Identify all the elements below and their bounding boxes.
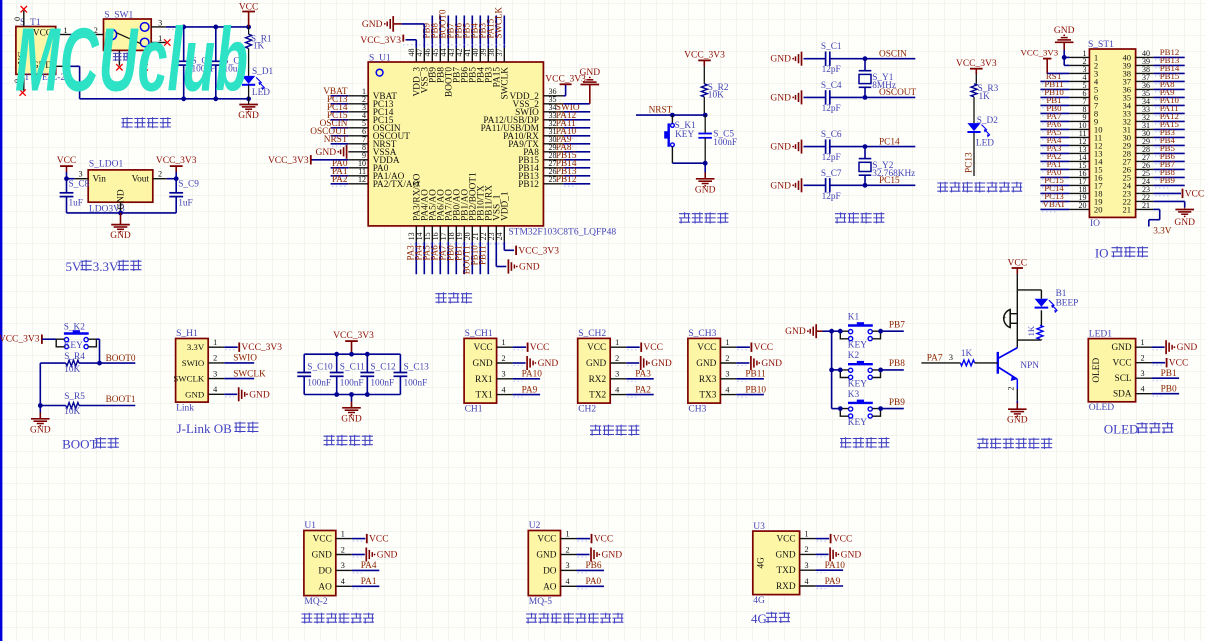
svg-text:21: 21	[1123, 204, 1132, 214]
svg-text:PC14: PC14	[879, 137, 900, 147]
svg-text:SDA: SDA	[1113, 390, 1132, 400]
svg-text:S_LDO1: S_LDO1	[89, 159, 124, 169]
svg-text:32.768KHz: 32.768KHz	[872, 169, 915, 179]
svg-text:S_C4: S_C4	[821, 81, 842, 91]
svg-text:RXD: RXD	[776, 582, 796, 592]
svg-text:3: 3	[805, 561, 809, 570]
svg-text:GND: GND	[580, 68, 601, 78]
svg-text:VCC_3V3: VCC_3V3	[333, 331, 374, 341]
svg-text:LED: LED	[976, 139, 994, 149]
svg-text:PB7: PB7	[889, 320, 905, 330]
svg-text:VCC_3V3: VCC_3V3	[1021, 47, 1059, 57]
svg-text:VCC: VCC	[1008, 258, 1028, 268]
svg-text:SWIO: SWIO	[233, 354, 257, 364]
svg-text:3: 3	[949, 353, 953, 362]
svg-text:PB9: PB9	[1160, 175, 1176, 185]
svg-text:S_CH1: S_CH1	[465, 329, 493, 339]
svg-text:LED: LED	[252, 88, 270, 98]
svg-text:TX3: TX3	[699, 391, 716, 401]
svg-text:K3: K3	[848, 390, 860, 400]
svg-text:GND: GND	[1174, 218, 1195, 228]
svg-text:VCC: VCC	[833, 535, 853, 545]
svg-text:2: 2	[725, 354, 729, 363]
svg-text:LED1: LED1	[1089, 329, 1112, 339]
svg-text:GND: GND	[602, 551, 623, 561]
svg-text:S_C11: S_C11	[340, 363, 365, 373]
svg-text:1K: 1K	[979, 92, 991, 102]
svg-text:GND: GND	[785, 327, 806, 337]
svg-text:U3: U3	[753, 522, 765, 532]
svg-text:2: 2	[615, 354, 619, 363]
svg-text:GND: GND	[841, 550, 862, 560]
svg-text:VCC: VCC	[57, 156, 77, 166]
svg-text:SWIO: SWIO	[182, 358, 204, 368]
svg-text:12pF: 12pF	[822, 104, 841, 114]
svg-text:TX2: TX2	[589, 391, 606, 401]
svg-text:GND: GND	[696, 359, 716, 369]
svg-text:SWCLK: SWCLK	[173, 374, 204, 384]
svg-text:3: 3	[565, 561, 569, 570]
svg-text:GND: GND	[770, 181, 791, 191]
svg-text:5V: 5V	[65, 259, 82, 274]
svg-text:PA9: PA9	[522, 385, 538, 395]
svg-text:Vin: Vin	[93, 175, 107, 185]
svg-text:10K: 10K	[64, 407, 80, 417]
svg-text:GND: GND	[185, 389, 204, 399]
svg-text:2: 2	[1007, 387, 1016, 391]
svg-text:S_ST1: S_ST1	[1088, 40, 1114, 50]
svg-text:VCC_3V3: VCC_3V3	[0, 335, 40, 345]
svg-text:VCC: VCC	[594, 535, 614, 545]
svg-text:GND: GND	[341, 414, 362, 424]
svg-text:VCC: VCC	[1169, 359, 1189, 369]
svg-text:3: 3	[78, 170, 82, 179]
svg-text:KEY: KEY	[675, 130, 694, 140]
svg-text:TXD: TXD	[776, 566, 795, 576]
svg-text:J-Link OB: J-Link OB	[177, 421, 233, 436]
svg-text:PC13: PC13	[964, 152, 974, 173]
svg-text:PA1: PA1	[361, 577, 377, 587]
svg-text:2: 2	[341, 545, 345, 554]
svg-text:GND: GND	[1177, 343, 1198, 353]
svg-text:10K: 10K	[64, 365, 80, 375]
svg-text:GND: GND	[538, 359, 559, 369]
svg-text:4: 4	[341, 577, 345, 586]
svg-text:100nF: 100nF	[404, 379, 428, 389]
svg-text:BOOT0: BOOT0	[106, 354, 136, 364]
svg-text:S_H1: S_H1	[176, 329, 198, 339]
svg-text:S_C8: S_C8	[69, 180, 90, 190]
svg-text:12pF: 12pF	[822, 192, 841, 202]
svg-text:SWCLK: SWCLK	[233, 369, 266, 379]
svg-text:AO: AO	[318, 582, 332, 592]
svg-text:CH2: CH2	[578, 404, 596, 414]
svg-text:PA3: PA3	[635, 370, 651, 380]
svg-text:2: 2	[213, 354, 217, 363]
svg-text:1K: 1K	[1026, 325, 1036, 336]
svg-text:GND: GND	[312, 551, 332, 561]
svg-text:100nF: 100nF	[340, 379, 364, 389]
svg-text:VCC_3V3: VCC_3V3	[241, 343, 282, 353]
svg-text:Link: Link	[176, 403, 194, 413]
svg-text:RX1: RX1	[475, 375, 493, 385]
svg-text:1: 1	[725, 338, 729, 347]
svg-text:VCC: VCC	[1112, 359, 1131, 369]
svg-text:PB11: PB11	[477, 245, 487, 265]
svg-text:2: 2	[502, 354, 506, 363]
svg-text:GND: GND	[770, 55, 791, 65]
svg-text:S_CH3: S_CH3	[688, 329, 716, 339]
svg-text:S_D2: S_D2	[977, 116, 999, 126]
svg-text:S_R5: S_R5	[64, 392, 85, 402]
svg-text:1: 1	[502, 338, 506, 347]
svg-text:100nF: 100nF	[370, 379, 394, 389]
svg-text:S_U1: S_U1	[369, 53, 391, 63]
svg-text:GND: GND	[1007, 416, 1028, 426]
svg-text:GND: GND	[30, 425, 51, 435]
svg-text:GND: GND	[117, 189, 127, 209]
svg-text:GND: GND	[770, 143, 791, 153]
svg-text:3.3V: 3.3V	[1153, 227, 1172, 237]
svg-text:2: 2	[565, 545, 569, 554]
svg-text:12pF: 12pF	[822, 153, 841, 163]
svg-text:4G: 4G	[756, 557, 766, 569]
svg-text:GND: GND	[110, 231, 131, 241]
svg-text:GND: GND	[586, 359, 606, 369]
svg-text:3: 3	[213, 369, 217, 378]
svg-text:S_C13: S_C13	[404, 363, 430, 373]
svg-text:GND: GND	[1054, 26, 1075, 36]
svg-text:4: 4	[1141, 385, 1145, 394]
svg-text:BOOT: BOOT	[62, 437, 97, 452]
svg-text:3.3V: 3.3V	[93, 259, 119, 274]
svg-text:37: 37	[495, 49, 504, 57]
svg-text:20: 20	[1079, 201, 1087, 210]
svg-text:PA10: PA10	[825, 561, 846, 571]
svg-text:GND: GND	[249, 390, 270, 400]
svg-text:PB1: PB1	[1161, 369, 1177, 379]
svg-text:S_C9: S_C9	[178, 180, 199, 190]
svg-text:KEY: KEY	[848, 341, 867, 351]
svg-text:MCUclub: MCUclub	[15, 11, 248, 111]
svg-text:S_C7: S_C7	[821, 169, 842, 179]
svg-text:1: 1	[213, 338, 217, 347]
svg-text:K2: K2	[848, 351, 860, 361]
svg-text:VCC_3V3: VCC_3V3	[360, 36, 401, 46]
svg-text:1: 1	[1141, 338, 1145, 347]
svg-text:K1: K1	[848, 313, 860, 323]
svg-text:4: 4	[565, 577, 569, 586]
svg-text:VCC: VCC	[1185, 189, 1205, 199]
svg-text:RX3: RX3	[699, 375, 717, 385]
svg-text:VDD_1: VDD_1	[501, 191, 511, 221]
svg-text:PB0: PB0	[1161, 385, 1177, 395]
svg-text:3.3V: 3.3V	[187, 342, 205, 352]
svg-text:S_C1: S_C1	[821, 42, 842, 52]
svg-text:1K: 1K	[961, 349, 973, 359]
svg-text:GND: GND	[1111, 343, 1131, 353]
svg-text:PB10: PB10	[745, 385, 766, 395]
svg-text:10K: 10K	[708, 91, 724, 101]
svg-text:2: 2	[1141, 354, 1145, 363]
svg-text:PB12: PB12	[556, 175, 577, 185]
svg-text:PB12: PB12	[518, 180, 539, 190]
svg-text:BEEP: BEEP	[1056, 299, 1079, 309]
svg-text:PA9: PA9	[825, 577, 841, 587]
svg-text:NPN: NPN	[1020, 361, 1039, 371]
svg-text:1uF: 1uF	[178, 198, 192, 208]
svg-text:3: 3	[725, 370, 729, 379]
svg-text:1: 1	[565, 529, 569, 538]
svg-text:1: 1	[615, 338, 619, 347]
svg-text:3: 3	[502, 370, 506, 379]
svg-text:OSCIN: OSCIN	[879, 50, 907, 60]
svg-text:GND: GND	[316, 148, 337, 158]
svg-text:DO: DO	[318, 566, 332, 576]
svg-text:VCC: VCC	[537, 535, 556, 545]
svg-text:8MHz: 8MHz	[872, 81, 896, 91]
svg-text:VCC: VCC	[754, 343, 774, 353]
svg-text:OLED: OLED	[1092, 358, 1102, 383]
svg-text:GND: GND	[695, 185, 716, 195]
svg-text:SWCLK: SWCLK	[501, 67, 511, 100]
svg-text:U1: U1	[304, 521, 316, 531]
svg-text:VCC: VCC	[369, 535, 389, 545]
svg-text:PA7: PA7	[927, 353, 943, 363]
svg-text:VCC_3V3: VCC_3V3	[268, 156, 309, 166]
svg-text:TX1: TX1	[476, 391, 493, 401]
svg-text:+: +	[1002, 313, 1006, 322]
svg-text:NRST: NRST	[324, 135, 348, 145]
svg-text:24: 24	[495, 232, 504, 240]
svg-text:VCC_3V3: VCC_3V3	[518, 246, 559, 256]
svg-text:S_CH2: S_CH2	[578, 329, 606, 339]
svg-text:12pF: 12pF	[822, 65, 841, 75]
svg-text:SCL: SCL	[1115, 374, 1132, 384]
svg-text:PA0: PA0	[586, 577, 602, 587]
svg-text:KEY: KEY	[64, 341, 83, 351]
svg-text:2: 2	[805, 545, 809, 554]
svg-text:GND: GND	[775, 550, 795, 560]
svg-text:2: 2	[158, 170, 162, 179]
svg-text:VCC: VCC	[530, 343, 550, 353]
svg-text:MQ-5: MQ-5	[529, 597, 552, 607]
svg-text:OLED: OLED	[1104, 422, 1139, 437]
svg-text:VCC_3V3: VCC_3V3	[684, 51, 725, 61]
svg-text:3: 3	[341, 561, 345, 570]
svg-text:DO: DO	[543, 566, 557, 576]
svg-text:GND: GND	[761, 359, 782, 369]
svg-text:4: 4	[805, 577, 809, 586]
svg-text:GND: GND	[536, 551, 556, 561]
svg-text:IO: IO	[1090, 219, 1100, 229]
svg-text:VCC: VCC	[697, 343, 716, 353]
svg-text:S_C10: S_C10	[307, 363, 333, 373]
svg-text:1K: 1K	[253, 42, 265, 52]
svg-text:Vout: Vout	[132, 175, 150, 185]
svg-text:S_D1: S_D1	[252, 67, 274, 77]
svg-text:4: 4	[725, 385, 729, 394]
svg-text:GND: GND	[377, 551, 398, 561]
svg-text:PA4: PA4	[361, 561, 377, 571]
svg-text:3: 3	[615, 370, 619, 379]
svg-text:RX2: RX2	[589, 375, 607, 385]
svg-text:SWCLK: SWCLK	[493, 6, 503, 38]
svg-text:VBAT: VBAT	[1043, 199, 1067, 209]
svg-text:B1: B1	[1056, 289, 1067, 299]
svg-text:20: 20	[1094, 204, 1103, 214]
svg-text:1: 1	[805, 529, 809, 538]
svg-text:VCC: VCC	[313, 535, 332, 545]
svg-text:VCC_3V3: VCC_3V3	[156, 156, 197, 166]
svg-text:3: 3	[1141, 369, 1145, 378]
svg-text:4G: 4G	[751, 611, 767, 626]
svg-text:OLED: OLED	[1089, 403, 1114, 413]
svg-text:PB11: PB11	[745, 370, 766, 380]
svg-text:GND: GND	[651, 359, 672, 369]
svg-text:4: 4	[502, 385, 506, 394]
svg-text:S_C12: S_C12	[370, 363, 396, 373]
svg-text:KEY: KEY	[848, 418, 867, 428]
svg-text:MQ-2: MQ-2	[304, 597, 327, 607]
svg-text:S_K2: S_K2	[64, 322, 86, 332]
svg-text:GND: GND	[770, 93, 791, 103]
svg-text:21: 21	[1142, 201, 1150, 210]
svg-text:PA2: PA2	[635, 385, 651, 395]
svg-text:VCC: VCC	[776, 535, 795, 545]
svg-text:NRST: NRST	[649, 105, 673, 115]
svg-text:CH1: CH1	[465, 404, 483, 414]
svg-text:GND: GND	[519, 263, 540, 273]
svg-text:100nF: 100nF	[307, 379, 331, 389]
svg-text:STM32F103C8T6_LQFP48: STM32F103C8T6_LQFP48	[508, 227, 616, 237]
svg-text:4: 4	[615, 385, 619, 394]
svg-text:U2: U2	[529, 521, 541, 531]
svg-text:PA10: PA10	[522, 370, 543, 380]
svg-text:S_R4: S_R4	[64, 352, 85, 362]
svg-text:1uF: 1uF	[69, 198, 83, 208]
svg-text:CH3: CH3	[688, 404, 706, 414]
svg-text:GND: GND	[362, 20, 383, 30]
svg-text:IO: IO	[1095, 246, 1109, 261]
svg-text:S_C6: S_C6	[821, 130, 842, 140]
svg-text:VCC: VCC	[473, 343, 492, 353]
svg-text:GND: GND	[238, 111, 259, 121]
svg-text:PA2: PA2	[332, 175, 348, 185]
svg-text:AO: AO	[543, 582, 557, 592]
svg-text:PB9: PB9	[889, 398, 905, 408]
svg-text:VCC: VCC	[587, 343, 606, 353]
svg-text:KEY: KEY	[848, 379, 867, 389]
svg-text:1: 1	[341, 529, 345, 538]
svg-text:VCC: VCC	[643, 343, 663, 353]
svg-text:100nF: 100nF	[713, 138, 737, 148]
svg-text:GND: GND	[472, 359, 492, 369]
svg-text:PB8: PB8	[889, 359, 905, 369]
svg-text:PB6: PB6	[586, 561, 602, 571]
svg-text:BOOT1: BOOT1	[106, 395, 136, 405]
svg-text:12: 12	[358, 175, 366, 184]
svg-text:VCC_3V3: VCC_3V3	[956, 59, 997, 69]
svg-text:4G: 4G	[753, 596, 765, 606]
svg-text:4: 4	[213, 385, 217, 394]
